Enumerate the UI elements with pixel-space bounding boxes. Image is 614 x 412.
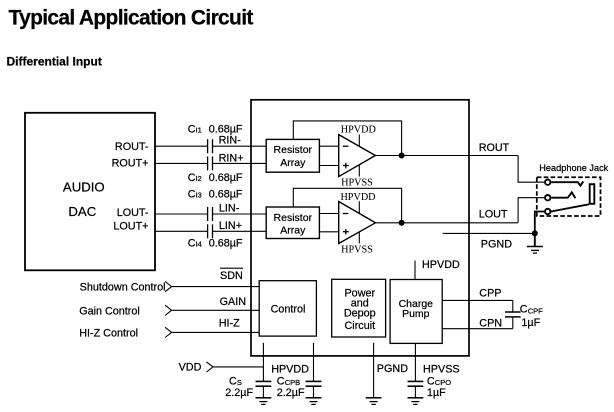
- svg-text:VDD: VDD: [179, 362, 202, 374]
- svg-text:ROUT-: ROUT-: [115, 141, 149, 153]
- svg-text:RIN+: RIN+: [219, 152, 244, 164]
- svg-text:Depop: Depop: [344, 308, 376, 320]
- resistor array 1: [266, 139, 319, 172]
- resistor array 2: [266, 207, 319, 239]
- svg-text:RIN-: RIN-: [219, 134, 242, 146]
- svg-text:GAIN: GAIN: [220, 296, 246, 308]
- wire array2 minus output to op-amp U2: [319, 213, 338, 215]
- svg-text:HPVDD: HPVDD: [422, 259, 460, 271]
- wire cap CI2 to RIN+ pin: [213, 162, 267, 164]
- wire array2 plus output to op-amp U2: [319, 231, 338, 233]
- node LOUT junction: [399, 220, 405, 226]
- svg-text:0.68µF: 0.68µF: [209, 238, 243, 250]
- jack sleeve contact circle: [545, 209, 550, 214]
- svg-text:Pump: Pump: [402, 308, 430, 320]
- svg-text:C: C: [520, 303, 528, 315]
- input arrow SDN: [165, 282, 172, 292]
- label CCPB: [277, 376, 300, 388]
- svg-text:C: C: [188, 124, 196, 136]
- svg-text:LOUT: LOUT: [479, 208, 508, 220]
- svg-text:Typical Application Circuit: Typical Application Circuit: [9, 7, 254, 30]
- PGND pin wire bottom: [373, 343, 375, 398]
- wire cap CI3 to LIN- pin: [213, 213, 267, 215]
- svg-text:ROUT+: ROUT+: [112, 158, 149, 170]
- ground CCPB: [306, 398, 322, 405]
- feedback wire U1: [293, 121, 401, 156]
- svg-text:C: C: [427, 376, 435, 388]
- svg-text:S: S: [237, 378, 242, 387]
- svg-text:SDN: SDN: [220, 270, 243, 282]
- headphone jack dashed box: [537, 177, 601, 216]
- svg-text:C: C: [188, 189, 196, 201]
- svg-text:HPVSS: HPVSS: [423, 363, 460, 375]
- HPVDD pin charge pump: [414, 261, 416, 280]
- node ROUT junction: [399, 153, 405, 159]
- svg-text:PGND: PGND: [377, 363, 408, 375]
- wire ROUT- to cap CI1: [155, 145, 208, 147]
- svg-text:Circuit: Circuit: [345, 320, 376, 332]
- svg-text:2.2µF: 2.2µF: [277, 387, 305, 399]
- jack sleeve diagonal: [551, 204, 589, 211]
- label SDN with overbar: [220, 268, 243, 282]
- AUDIO DAC block: [25, 113, 155, 270]
- svg-text:Headphone Jack: Headphone Jack: [539, 163, 608, 173]
- label CI3 value: [188, 189, 243, 201]
- svg-text:HPVSS: HPVSS: [341, 244, 373, 255]
- jack ring contact circle: [545, 195, 550, 200]
- wire array1 minus output to op-amp U1: [319, 145, 338, 147]
- feedback wire U2: [293, 188, 401, 223]
- charge pump block: [390, 280, 442, 344]
- svg-text:HPVDD: HPVDD: [340, 192, 375, 203]
- svg-text:C: C: [277, 376, 285, 388]
- power and depop block: [332, 279, 386, 337]
- svg-text:0.68µF: 0.68µF: [209, 172, 243, 184]
- svg-text:LIN-: LIN-: [219, 203, 240, 215]
- wire array1 plus output to op-amp U1: [319, 165, 338, 167]
- ground jack: [527, 233, 543, 253]
- wire LOUT- to cap CI3: [155, 213, 208, 215]
- U1 HPVSS pin: [358, 164, 360, 176]
- svg-text:0.68µF: 0.68µF: [209, 189, 243, 201]
- svg-text:DAC: DAC: [68, 204, 96, 219]
- ground PGND: [366, 398, 382, 405]
- svg-text:Differential Input: Differential Input: [7, 55, 102, 69]
- VDD input arrow: [207, 362, 214, 372]
- svg-text:Resistor: Resistor: [274, 212, 313, 224]
- op-amp U1: [339, 135, 376, 177]
- svg-text:2.2µF: 2.2µF: [225, 387, 253, 399]
- capacitor CI3: [208, 207, 213, 221]
- wire ROUT+ to cap CI2: [155, 162, 208, 164]
- svg-text:I1: I1: [196, 126, 202, 135]
- wire ROUT to jack tip: [518, 156, 544, 183]
- svg-text:AUDIO: AUDIO: [63, 179, 105, 194]
- IC outline box: [251, 100, 469, 356]
- U2 HPVDD pin: [358, 201, 360, 213]
- op-amp U2: [339, 202, 376, 244]
- svg-text:CPB: CPB: [285, 378, 300, 387]
- svg-text:Resistor: Resistor: [274, 144, 313, 156]
- wire CPN: [442, 328, 513, 330]
- svg-text:HPVDD: HPVDD: [341, 125, 376, 136]
- svg-text:ROUT: ROUT: [479, 142, 510, 154]
- U2 HPVSS pin: [358, 232, 360, 244]
- wire LOUT+ to cap CI4: [155, 230, 208, 232]
- svg-text:1µF: 1µF: [521, 317, 540, 329]
- label CI4 value: [188, 238, 243, 250]
- wire cap CI4 to LIN+ pin: [213, 230, 267, 232]
- svg-text:HPVSS: HPVSS: [341, 178, 373, 189]
- wire U1 output ROUT: [375, 155, 518, 157]
- wire SDN: [172, 286, 260, 288]
- label CI1 value: [188, 124, 243, 136]
- svg-text:CPN: CPN: [479, 318, 502, 330]
- wire cap CI1 to RIN- pin: [213, 145, 267, 147]
- wire LOUT to jack ring: [518, 198, 544, 223]
- wire U2 output LOUT: [375, 222, 518, 224]
- CPB pin wire: [313, 343, 315, 382]
- svg-text:C: C: [229, 376, 237, 388]
- svg-text:I3: I3: [196, 191, 202, 200]
- svg-text:I2: I2: [196, 174, 202, 183]
- capacitor CI1: [208, 139, 213, 153]
- svg-text:1µF: 1µF: [427, 387, 446, 399]
- svg-text:LIN+: LIN+: [219, 220, 242, 232]
- svg-text:PGND: PGND: [481, 239, 512, 251]
- jack tip contact lever: [551, 181, 583, 185]
- svg-text:HPVDD: HPVDD: [271, 363, 309, 375]
- label CI2 value: [188, 172, 243, 184]
- svg-text:C: C: [188, 172, 196, 184]
- capacitor CCPB: [306, 381, 322, 397]
- wire PGND to jack: [443, 232, 535, 234]
- HPVDD supply pin wire: [262, 343, 264, 382]
- wire GAIN: [172, 309, 260, 311]
- capacitor CI2: [208, 156, 213, 170]
- jack tip contact circle: [545, 180, 550, 185]
- wire HI-Z: [172, 331, 260, 333]
- jack ring contact lever: [551, 192, 575, 198]
- capacitor CCPF: [505, 300, 521, 328]
- input arrow GAIN: [165, 305, 172, 315]
- wire CPP: [442, 299, 513, 301]
- svg-text:CPP: CPP: [479, 287, 501, 299]
- svg-text:LOUT-: LOUT-: [117, 207, 149, 219]
- svg-text:I4: I4: [196, 240, 202, 249]
- ground CCPO: [408, 398, 424, 405]
- HPVSS pin wire: [414, 343, 416, 381]
- label CS: [229, 376, 242, 388]
- label CCPO: [427, 376, 451, 388]
- svg-text:Array: Array: [280, 225, 306, 237]
- svg-text:Gain Control: Gain Control: [79, 305, 140, 317]
- node PGND junction: [532, 230, 538, 236]
- svg-text:Control: Control: [271, 303, 306, 315]
- ground CS: [256, 398, 272, 405]
- capacitor CCPO: [408, 381, 424, 397]
- svg-text:C: C: [188, 238, 196, 250]
- U1 HPVDD pin: [358, 135, 360, 147]
- svg-text:HI-Z Control: HI-Z Control: [79, 328, 138, 340]
- wire VDD: [213, 366, 263, 368]
- svg-text:Array: Array: [280, 157, 306, 169]
- svg-text:Shutdown Control: Shutdown Control: [80, 282, 166, 294]
- label CCPF: [520, 303, 543, 315]
- svg-text:CPO: CPO: [435, 378, 451, 387]
- capacitor CS: [256, 381, 272, 397]
- svg-text:LOUT+: LOUT+: [113, 221, 148, 233]
- wire PGND junction up to jack sleeve: [535, 212, 544, 234]
- capacitor CI4: [208, 224, 213, 238]
- control block: [259, 281, 316, 336]
- jack plug body: [590, 184, 595, 204]
- svg-text:HI-Z: HI-Z: [219, 318, 240, 330]
- svg-text:CPF: CPF: [528, 307, 543, 316]
- input arrow HI-Z: [165, 327, 172, 337]
